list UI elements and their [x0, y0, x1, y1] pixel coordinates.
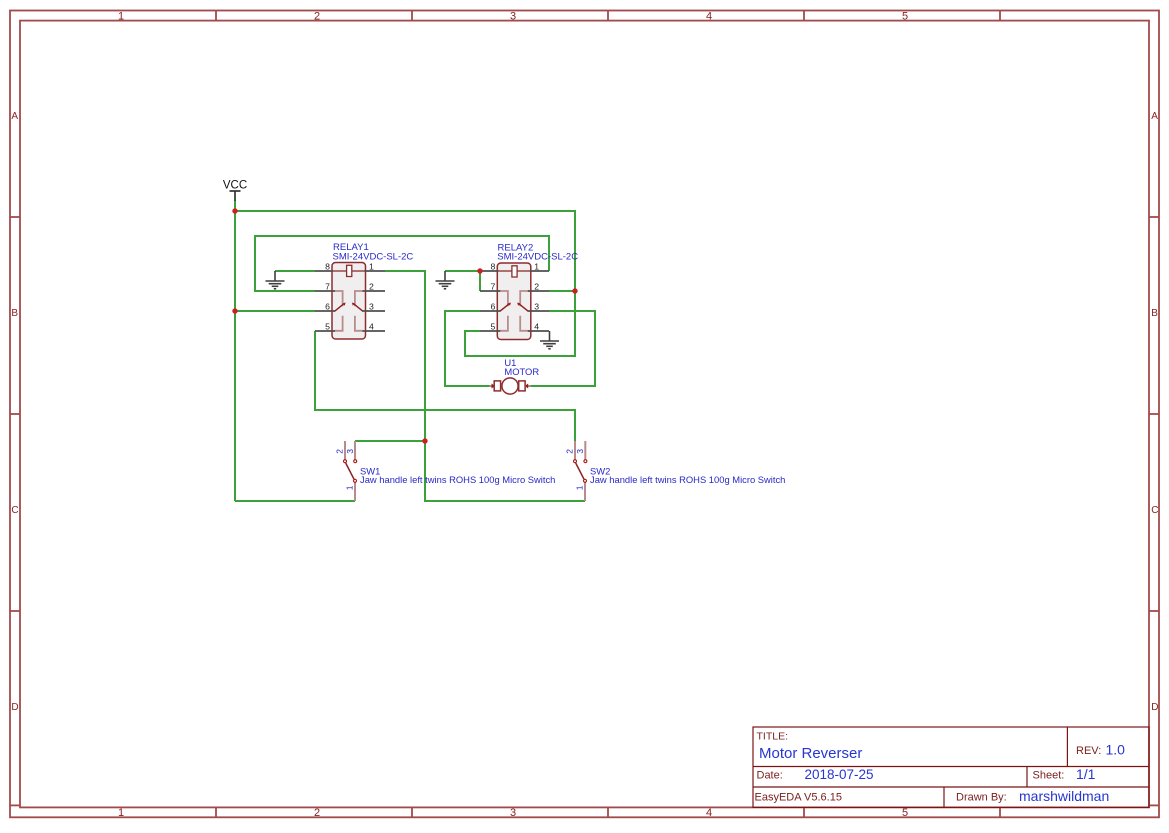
svg-text:REV:: REV: [1076, 745, 1101, 757]
relay RELAY2 pins [480, 271, 549, 331]
title block text Sheet [1033, 766, 1096, 782]
svg-text:3: 3 [369, 302, 374, 312]
ground symbol GND2 [436, 271, 455, 289]
svg-text:3: 3 [510, 807, 516, 819]
title block text TITLE [757, 731, 863, 763]
svg-text:5: 5 [325, 322, 330, 332]
svg-text:4: 4 [706, 807, 712, 819]
wire gnd2 to RELAY2 pin8 [445, 270, 480, 272]
svg-text:2: 2 [314, 11, 320, 23]
svg-text:3: 3 [575, 449, 585, 454]
svg-text:1: 1 [575, 485, 585, 490]
ground symbol GND1 [266, 271, 285, 289]
svg-text:Motor Reverser: Motor Reverser [759, 745, 862, 762]
svg-text:3: 3 [510, 11, 516, 23]
title block text REV [1076, 742, 1125, 758]
relay RELAY2 [497, 263, 531, 340]
svg-text:1: 1 [345, 485, 355, 490]
title block [753, 727, 1149, 807]
switch SW1 [344, 441, 357, 501]
wire RELAY1 pin1 to SW junction [385, 271, 425, 441]
svg-text:D: D [11, 702, 18, 713]
switch SW1 pin numbers [335, 449, 356, 491]
title block text Date [757, 767, 874, 782]
svg-text:MOTOR: MOTOR [504, 366, 539, 377]
relay RELAY1 [332, 263, 366, 340]
motor U1 labels [504, 357, 539, 377]
svg-text:6: 6 [490, 302, 495, 312]
svg-text:3: 3 [534, 302, 539, 312]
svg-text:8: 8 [490, 262, 495, 272]
wire RELAY1 pin7 to RELAY2 pin1 [255, 236, 549, 291]
wire bottom left rail to SW1 [235, 500, 355, 502]
wire RELAY1 pin6 [235, 310, 315, 312]
wire junction down to SW2 pin1 [425, 441, 585, 501]
svg-text:Drawn By:: Drawn By: [956, 792, 1007, 804]
svg-text:B: B [1151, 308, 1158, 319]
svg-text:1: 1 [369, 262, 374, 272]
svg-text:4: 4 [706, 11, 712, 23]
wire gnd1 to RELAY1 pin8 [275, 270, 315, 272]
svg-text:C: C [11, 505, 18, 516]
svg-text:EasyEDA V5.6.15: EasyEDA V5.6.15 [755, 792, 842, 804]
svg-text:1.0: 1.0 [1106, 742, 1126, 758]
svg-text:marshwildman: marshwildman [1019, 788, 1109, 804]
switch SW2 [574, 441, 587, 501]
svg-text:3: 3 [345, 449, 355, 454]
svg-text:8: 8 [325, 262, 330, 272]
svg-text:Jaw handle left twins ROHS 100: Jaw handle left twins ROHS 100g Micro Sw… [590, 474, 785, 485]
svg-text:5: 5 [902, 11, 908, 23]
svg-text:5: 5 [902, 807, 908, 819]
svg-text:A: A [1151, 111, 1158, 122]
WIRES [235, 201, 595, 502]
svg-text:1/1: 1/1 [1076, 766, 1096, 782]
svg-text:2018-07-25: 2018-07-25 [805, 767, 874, 782]
wire SW1 pin3 to junction [355, 440, 425, 442]
switch SW2 pin numbers [565, 449, 586, 491]
svg-text:7: 7 [325, 282, 330, 292]
svg-text:D: D [1151, 702, 1158, 713]
wire VCC top rail [235, 211, 575, 356]
relay RELAY1 pin numbers [325, 262, 374, 332]
wire RELAY2 pin6 to motor left [445, 311, 490, 386]
svg-text:5: 5 [490, 322, 495, 332]
title block text Drawn By [956, 788, 1109, 804]
ground symbol GND3 [540, 331, 559, 349]
switch SW1 labels [360, 466, 555, 486]
svg-text:1: 1 [534, 262, 539, 272]
svg-text:2: 2 [369, 282, 374, 292]
junction dots [232, 208, 577, 443]
wire VCC left rail [234, 201, 236, 502]
wire RELAY2 pin8 to pin7 [479, 271, 481, 291]
svg-text:VCC: VCC [223, 180, 247, 192]
svg-text:2: 2 [565, 449, 575, 454]
title block text EasyEDA [755, 792, 842, 804]
svg-text:C: C [1151, 505, 1158, 516]
junction at VCC split [232, 208, 237, 213]
junction at RELAY2 pin2 [572, 288, 577, 293]
svg-text:4: 4 [369, 322, 374, 332]
svg-text:1: 1 [118, 807, 124, 819]
svg-text:TITLE:: TITLE: [757, 731, 789, 743]
relay RELAY2 labels [497, 243, 578, 263]
svg-text:1: 1 [118, 11, 124, 23]
wire RELAY1 pin5 to SW2 pin2 [315, 331, 575, 441]
svg-text:SMI-24VDC-SL-2C: SMI-24VDC-SL-2C [333, 251, 414, 262]
svg-text:Date:: Date: [757, 770, 783, 782]
svg-text:SMI-24VDC-SL-2C: SMI-24VDC-SL-2C [497, 252, 578, 263]
relay RELAY1 labels [333, 242, 414, 262]
svg-text:2: 2 [534, 282, 539, 292]
motor U1 [490, 378, 531, 394]
svg-text:2: 2 [335, 449, 345, 454]
junction at SW1 net [422, 438, 427, 443]
relay RELAY1 pins [315, 271, 385, 331]
svg-text:7: 7 [490, 282, 495, 292]
svg-text:2: 2 [314, 807, 320, 819]
switch SW2 labels [590, 466, 785, 486]
relay RELAY2 pin numbers [490, 262, 539, 332]
svg-text:A: A [11, 111, 18, 122]
VCC power symbol [223, 180, 247, 202]
junction at RELAY2 pin8 [477, 268, 482, 273]
junction at RELAY1 pin6 branch [232, 308, 237, 313]
wire RELAY2 pin3 to motor right [530, 311, 595, 386]
svg-text:B: B [11, 308, 18, 319]
svg-text:Jaw handle left twins ROHS 100: Jaw handle left twins ROHS 100g Micro Sw… [360, 474, 555, 485]
wire RELAY2 pin2 stub [549, 290, 575, 292]
svg-text:6: 6 [325, 302, 330, 312]
svg-text:4: 4 [534, 322, 539, 332]
svg-text:Sheet:: Sheet: [1033, 770, 1065, 782]
